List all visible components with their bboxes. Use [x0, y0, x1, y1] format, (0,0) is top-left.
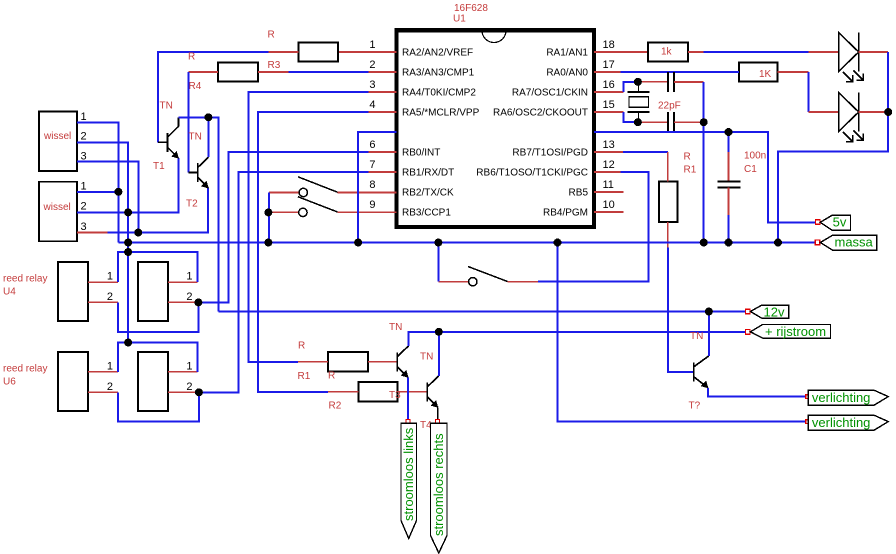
wire T2 collector [207, 117, 209, 157]
svg-text:RB7/T1OSI/PGD: RB7/T1OSI/PGD [512, 148, 588, 159]
svg-text:RA7/OSC1/CKIN: RA7/OSC1/CKIN [512, 88, 588, 99]
svg-text:1: 1 [107, 271, 113, 283]
flag 5v [815, 220, 820, 225]
wire T1/T2 collectors to 12v rail [178, 117, 218, 311]
flag verlichting (top) [806, 395, 810, 399]
svg-text:R4: R4 [189, 81, 202, 92]
svg-text:RB0/INT: RB0/INT [402, 148, 440, 159]
svg-text:16: 16 [603, 79, 615, 91]
connector J1 wissel (top) [39, 112, 77, 172]
junction massa at 728 [725, 239, 733, 247]
wire U6 pin2 frame [118, 392, 199, 421]
flag stroomloos links [406, 420, 410, 424]
flag massa [815, 240, 820, 245]
U4 pin numbers [107, 271, 193, 303]
transistor T2 [189, 157, 209, 188]
svg-text:T3: T3 [389, 390, 401, 401]
svg-text:RA0/AN0: RA0/AN0 [546, 68, 588, 79]
svg-text:3: 3 [81, 221, 87, 233]
junction massa at 438 [434, 239, 442, 247]
svg-text:wissel: wissel [43, 202, 71, 213]
wire LED cathodes to massa [778, 52, 888, 243]
capacitor C1 100n [728, 132, 730, 152]
svg-text:12: 12 [603, 159, 615, 171]
LED D2 [839, 92, 863, 141]
reed relay U6 contact box [58, 352, 88, 411]
svg-text:TN: TN [420, 352, 433, 363]
svg-text:18: 18 [603, 39, 615, 51]
U1 left pin numbers 1-4,6-9 [369, 39, 375, 211]
svg-text:stroomloos rechts: stroomloos rechts [431, 433, 446, 536]
junction massa at 268 [264, 239, 272, 247]
svg-text:R: R [684, 152, 691, 163]
svg-text:R: R [188, 52, 195, 63]
svg-text:RB6/T1OSO/T1CKI/PGC: RB6/T1OSO/T1CKI/PGC [476, 168, 588, 179]
op-amp/microcontroller U1 16F628 body [397, 30, 595, 227]
svg-text:U1: U1 [453, 14, 466, 25]
svg-text:stroomloos links: stroomloos links [401, 427, 416, 521]
svg-text:R: R [268, 30, 275, 41]
svg-text:reed relay: reed relay [3, 274, 47, 285]
transistor T4 [427, 376, 439, 408]
junction massa at 557 [554, 239, 562, 247]
wire J1.1 to massa riser [77, 122, 118, 242]
svg-text:9: 9 [369, 199, 375, 211]
junction wissel pins 2 [124, 208, 132, 216]
resistor 1K [739, 63, 778, 82]
wire pin17 to 1K [621, 71, 740, 73]
svg-text:R1: R1 [684, 165, 697, 176]
junction crystal bottom node [634, 118, 642, 126]
svg-text:R3: R3 [268, 60, 281, 71]
svg-text:16F628: 16F628 [454, 3, 488, 14]
U4 pin1 leads [88, 281, 118, 283]
svg-text:RA2/AN2/VREF: RA2/AN2/VREF [402, 48, 473, 59]
svg-text:RB5: RB5 [569, 188, 589, 199]
U1 right pin labels [476, 48, 588, 219]
switch S3 [469, 278, 477, 286]
svg-text:TN: TN [389, 322, 402, 333]
svg-text:2: 2 [81, 201, 87, 213]
U6 pin numbers [107, 360, 193, 393]
resistor 1k [648, 43, 688, 62]
svg-text:1: 1 [186, 360, 192, 372]
svg-text:6: 6 [369, 139, 375, 151]
svg-text:2: 2 [369, 59, 375, 71]
svg-text:3: 3 [369, 79, 375, 91]
junction wissel pins 3 [134, 229, 142, 237]
switch S3 wires [508, 281, 538, 283]
junction 12v / T? collector [705, 308, 713, 316]
U6 pin1 leads [88, 371, 118, 373]
wire pin4 to R2 row [258, 112, 368, 392]
wire 12v rail [218, 311, 745, 313]
svg-text:7: 7 [369, 159, 375, 171]
wire 1k to LED1 [688, 51, 704, 53]
svg-text:verlichting: verlichting [812, 390, 871, 405]
wire R3 to T2 base [189, 71, 218, 73]
flag stroomloos rechts [436, 420, 440, 424]
wire net massa [118, 242, 819, 244]
resistor R1 (vertical) [659, 181, 678, 222]
wire R1 to T3 base [368, 361, 397, 363]
wire R1 to T? base [667, 222, 669, 248]
wire R2 to T4 base [398, 391, 428, 393]
wire pin7 to U6.2 [199, 172, 369, 392]
svg-text:2: 2 [81, 131, 87, 143]
wire pin15 to crystal bottom [623, 112, 638, 122]
wire R1 lead left [298, 361, 328, 363]
junction switch left / S2 [264, 208, 272, 216]
svg-text:2: 2 [107, 291, 113, 303]
svg-text:T1: T1 [153, 161, 165, 172]
resistor R (pin1 row) [299, 43, 339, 62]
svg-text:RB2/TX/CK: RB2/TX/CK [402, 188, 454, 199]
svg-text:5v: 5v [833, 215, 847, 230]
svg-text:verlichting: verlichting [812, 415, 871, 430]
svg-text:13: 13 [603, 139, 615, 151]
wire U4 pin1 frame [118, 252, 197, 282]
svg-text:RA6/OSC2/CKOOUT: RA6/OSC2/CKOOUT [493, 108, 588, 119]
svg-text:T2: T2 [186, 199, 198, 210]
U1 left pin stubs [338, 52, 397, 212]
resistor R3/R4 (pin2 row) [218, 63, 258, 82]
svg-text:1k: 1k [661, 47, 673, 58]
switch S2 [299, 208, 307, 216]
wire J2.3 lead [77, 232, 107, 234]
transistor T3 [397, 346, 409, 378]
junction U4 frame top [124, 248, 132, 256]
svg-text:22pF: 22pF [658, 101, 681, 112]
svg-text:RB3/CCP1: RB3/CCP1 [402, 208, 451, 219]
svg-text:U6: U6 [3, 376, 16, 387]
transistor T1 [158, 117, 179, 158]
svg-text:TN: TN [160, 101, 173, 112]
wire pin14 Vdd to 5v flag [594, 132, 815, 222]
wire U4 pin2 frame [118, 302, 198, 332]
resistor R2 (T4 base) [359, 382, 398, 402]
wire pin16 to crystal top [623, 82, 638, 92]
svg-text:RB1/RX/DT: RB1/RX/DT [402, 168, 454, 179]
junction massa at 128 [124, 239, 132, 247]
wire J1.2 riser to U4 frame [77, 142, 128, 342]
svg-text:12v: 12v [764, 304, 785, 319]
reed relay U4 contact box [58, 262, 88, 321]
svg-text:RA5/*MCLR/VPP: RA5/*MCLR/VPP [402, 108, 480, 119]
wire T? emitter to verlichting [708, 388, 806, 397]
svg-text:15: 15 [603, 99, 615, 111]
wire T4 collector [438, 332, 440, 376]
svg-text:TN: TN [690, 331, 703, 342]
svg-text:1: 1 [186, 271, 192, 283]
LED D1 [839, 32, 863, 81]
junction U4 pin2 [194, 298, 202, 306]
U1 notch [482, 31, 506, 43]
connector J2 wissel (bottom) [39, 182, 77, 242]
svg-text:11: 11 [603, 179, 614, 191]
wire R2 lead left [328, 391, 358, 393]
svg-text:RA4/T0KI/CMP2: RA4/T0KI/CMP2 [402, 88, 476, 99]
svg-text:T?: T? [689, 401, 701, 412]
svg-text:2: 2 [186, 291, 192, 303]
junction massa at 358 [354, 239, 362, 247]
svg-text:RA3/AN3/CMP1: RA3/AN3/CMP1 [402, 68, 475, 79]
wire LED1 cathode [859, 51, 889, 53]
junction massa at 703 [700, 239, 708, 247]
svg-text:massa: massa [835, 235, 874, 250]
svg-text:10: 10 [603, 199, 615, 211]
flag +rijstroom [746, 330, 751, 335]
wire T4 emitter to flag [437, 407, 439, 419]
flag 12v [746, 309, 751, 314]
svg-text:R1: R1 [298, 371, 311, 382]
flag verlichting (bottom) [806, 420, 810, 424]
U1 right pin stubs [594, 52, 648, 212]
wire T3 emitter to flag [407, 377, 409, 419]
svg-text:R: R [298, 341, 305, 352]
wire T3 collector / +rijstroom rail [409, 332, 746, 346]
wire J2.1 [77, 191, 118, 193]
U1 right pin numbers 18-15,13-10 [603, 39, 615, 211]
svg-text:RB4/PGM: RB4/PGM [543, 208, 588, 219]
svg-text:2: 2 [107, 381, 113, 393]
svg-text:17: 17 [603, 59, 615, 71]
svg-text:1: 1 [369, 39, 375, 51]
junction T1/T2 collector node [204, 113, 212, 121]
svg-text:100n: 100n [744, 151, 766, 162]
svg-text:reed relay: reed relay [3, 363, 47, 374]
wire pin6 to U4.2 [198, 152, 368, 302]
wire massa to verlichting (bottom) [558, 243, 807, 422]
junction LED2 cathode [884, 108, 892, 116]
wire J2.3 to T2 emitter [107, 188, 207, 233]
svg-text:R2: R2 [329, 401, 342, 412]
svg-text:8: 8 [369, 179, 375, 191]
wire pin13 to R1 [623, 151, 668, 153]
junction U6 pin2 [195, 388, 203, 396]
junction U6 frame top [124, 339, 132, 347]
svg-text:R: R [328, 371, 335, 382]
wire LED2 cathode [859, 111, 889, 113]
reed relay U4 coil box [138, 262, 168, 321]
wire R3 to chip pin2 [258, 71, 288, 73]
U1 left pin labels [402, 48, 480, 219]
junction Vdd/C1 [725, 128, 733, 136]
svg-text:RA1/AN1: RA1/AN1 [546, 48, 588, 59]
svg-text:U4: U4 [3, 287, 16, 298]
wire R to T1 base [268, 51, 298, 53]
wire J2.2 to T1 emitter [77, 158, 178, 212]
wire caps right side to massa [674, 81, 704, 83]
svg-text:3: 3 [81, 150, 87, 162]
wire 1K to LED2 [778, 71, 809, 73]
svg-text:C1: C1 [744, 164, 757, 175]
junction crystal top node [634, 78, 642, 86]
crystal Q1 [628, 82, 650, 122]
wire pin3 to R1 row [248, 92, 368, 362]
wire pin12 to switch S3 [538, 172, 649, 282]
capacitor C2 22pF (top) [668, 72, 674, 92]
svg-text:1: 1 [107, 360, 113, 372]
svg-text:TN: TN [189, 132, 202, 143]
U6 pin2 leads [88, 391, 118, 393]
capacitor C3 22pF (bottom) [668, 112, 674, 132]
switch S1 [299, 188, 307, 196]
transistor T? [694, 356, 709, 388]
resistor R1 (T3 base) [328, 352, 368, 372]
wire U6 pin1 frame [118, 343, 197, 372]
junction wissel pins 1 [114, 188, 122, 196]
wire pin5 Vss to massa [358, 132, 396, 243]
svg-text:4: 4 [369, 99, 375, 111]
svg-text:wissel: wissel [43, 131, 71, 142]
svg-text:1K: 1K [759, 69, 772, 80]
svg-text:+ rijstroom: + rijstroom [765, 324, 826, 339]
wire T? collector to 12v [708, 312, 710, 356]
U4 pin2 leads [88, 301, 118, 303]
svg-text:1: 1 [81, 180, 87, 192]
junction caps to ground column [700, 118, 708, 126]
junction massa at 778 [774, 239, 782, 247]
svg-text:2: 2 [186, 381, 192, 393]
reed relay U6 coil box [138, 352, 168, 411]
switch S1 (pin8) wires [269, 192, 299, 194]
svg-text:1: 1 [81, 111, 87, 123]
switch S2 (pin9) wires [268, 211, 298, 213]
wire J1.3 riser [77, 162, 138, 233]
junction rijstroom / T4 collector [435, 328, 443, 336]
